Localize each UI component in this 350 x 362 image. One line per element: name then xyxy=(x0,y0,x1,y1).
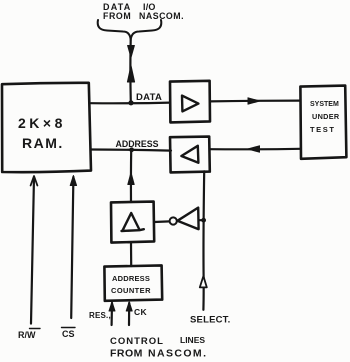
wire: comparator output to inverter bubble xyxy=(154,220,169,223)
node: address junction xyxy=(129,147,134,152)
buffer U2 box (address receiver) xyxy=(170,137,210,173)
arrowhead up RES xyxy=(109,302,115,311)
ADDRESS COUNTER box xyxy=(104,265,162,300)
svg-text:SELECT.: SELECT. xyxy=(190,315,230,326)
wire: DATA bus RAM to buffer xyxy=(91,101,170,104)
buffer U2 triangle xyxy=(181,146,198,163)
svg-text:LINES: LINES xyxy=(180,335,205,345)
svg-text:ADDRESS: ADDRESS xyxy=(112,274,150,283)
arrowhead up (data to NASCOM) xyxy=(127,66,134,83)
arrowhead left on address wire xyxy=(248,146,260,152)
wire: inverter to select line xyxy=(199,219,204,221)
inverter bubble xyxy=(170,217,177,224)
wire: address junction down to comparator box xyxy=(130,150,132,202)
SYSTEM UNDER TEST box xyxy=(300,86,346,159)
wire: bidirectional data I/O line xyxy=(129,40,132,103)
svg-text:SYSTEM: SYSTEM xyxy=(310,101,339,108)
buffer U1 triangle xyxy=(182,96,198,112)
node: data junction xyxy=(128,100,133,105)
arrowhead down (data to board) xyxy=(128,46,135,58)
label: DATA I/O FROM NASCOM xyxy=(103,2,184,21)
comparator U3 delta symbol xyxy=(122,213,144,231)
svg-text:RAM.: RAM. xyxy=(22,135,64,151)
wire: ADDRESS bus RAM to buffer xyxy=(91,150,171,151)
svg-text:DATA: DATA xyxy=(136,92,162,103)
svg-text:FROMNASCOM.: FROMNASCOM. xyxy=(110,348,207,360)
arrowhead up CS xyxy=(70,176,76,186)
svg-text:CONTROL: CONTROL xyxy=(110,336,164,347)
svg-text:2K×8: 2K×8 xyxy=(18,115,66,131)
svg-text:CS: CS xyxy=(62,329,75,339)
arrowhead up R/W (open) xyxy=(31,176,38,186)
svg-text:R/W: R/W xyxy=(18,330,36,340)
brace under DATA I/O label xyxy=(98,20,162,40)
wire: comparator to address counter xyxy=(130,243,132,266)
comparator U3 box (delta) xyxy=(111,202,154,243)
svg-text:COUNTER: COUNTER xyxy=(111,286,151,295)
arrowhead up CK xyxy=(126,302,132,311)
wire: CK input xyxy=(128,303,130,325)
svg-text:TEST: TEST xyxy=(310,125,336,134)
label: R/W with overbar xyxy=(18,329,40,341)
wire: R/W control line xyxy=(31,177,34,324)
arrowhead up on address feed xyxy=(128,173,134,185)
label: ADDRESS COUNTER xyxy=(111,274,151,295)
svg-text:FROMNASCOM.: FROMNASCOM. xyxy=(103,11,184,21)
svg-text:UNDER: UNDER xyxy=(312,112,340,121)
inverter triangle xyxy=(177,208,198,230)
arrowhead right on data wire xyxy=(248,98,260,104)
svg-text:ADDRESS: ADDRESS xyxy=(116,139,159,149)
buffer U1 box (data driver) xyxy=(170,81,210,123)
svg-text:CK: CK xyxy=(134,307,148,317)
wire: CS control line xyxy=(71,177,73,318)
wire: buffer to system under test (data) xyxy=(210,99,300,102)
label: SYSTEM UNDER TEST xyxy=(310,101,340,134)
label: 2K x 8 RAM. xyxy=(18,115,66,151)
svg-text:RES.,: RES., xyxy=(89,311,111,320)
arrowhead up on select line xyxy=(200,276,207,287)
node: select junction xyxy=(201,218,206,223)
wire: system under test to buffer (address) xyxy=(210,148,300,151)
label: CONTROL LINES FROM NASCOM xyxy=(110,335,207,360)
RAM box xyxy=(2,83,91,172)
wire: RES input xyxy=(110,303,113,325)
label: CS with overbar xyxy=(62,328,76,340)
wire: select vertical line xyxy=(202,171,205,309)
